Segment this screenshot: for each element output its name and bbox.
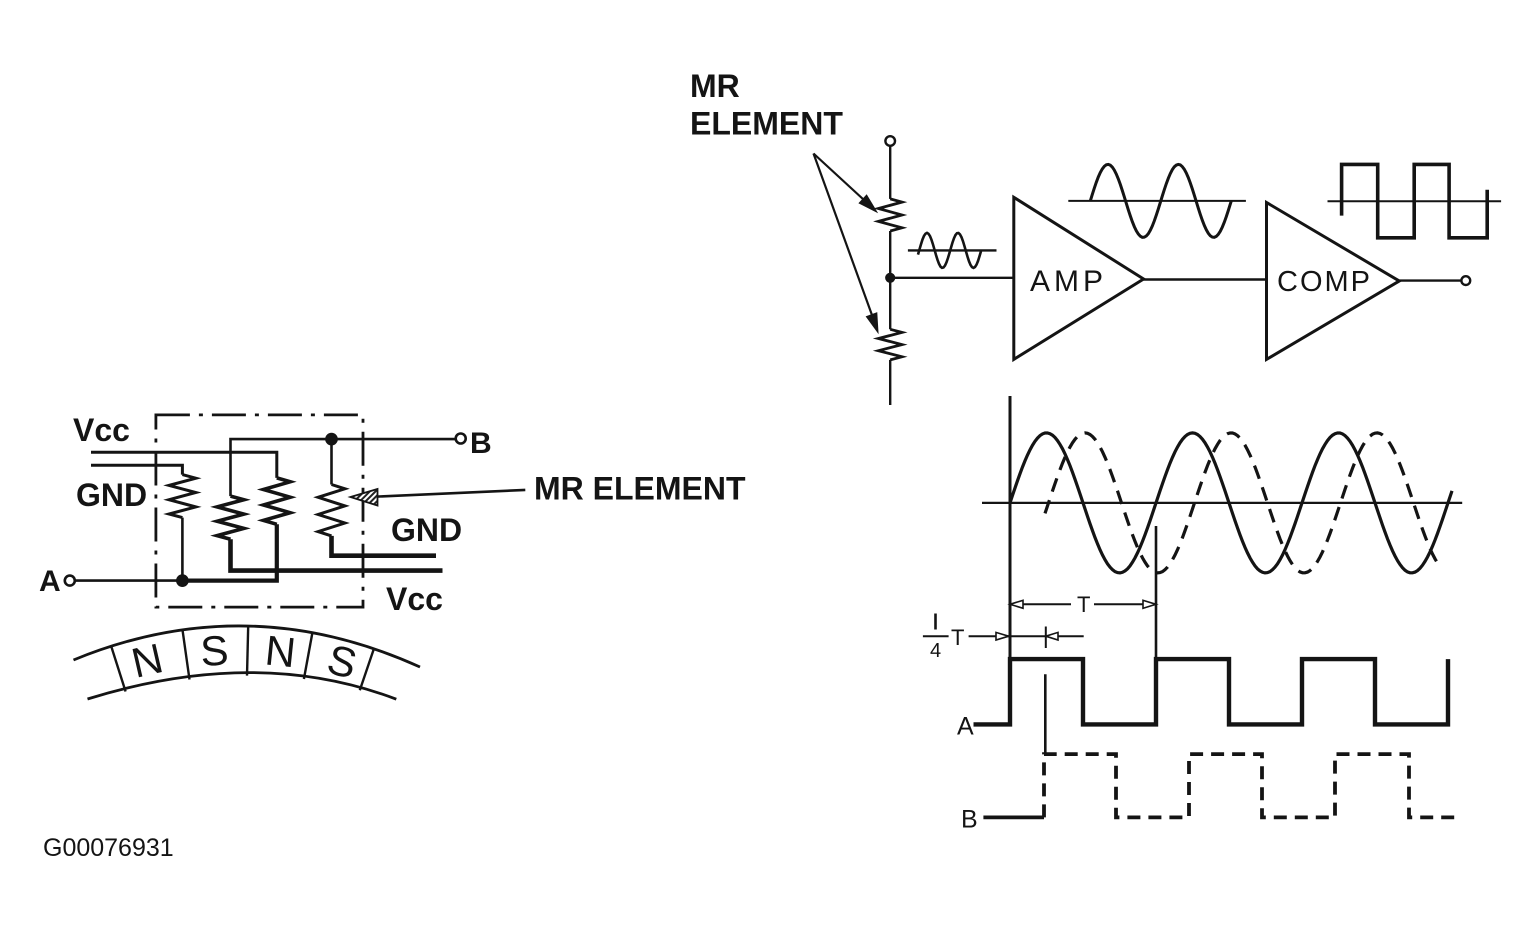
dimension T line	[1010, 603, 1071, 605]
waveform A square (solid)	[974, 659, 1449, 724]
wire Vcc left to R3 top	[91, 452, 277, 478]
svg-text:GND: GND	[391, 512, 462, 548]
wire node to R6	[889, 278, 891, 330]
dimension quarter T line	[969, 635, 1084, 637]
wire bias to R5	[889, 146, 891, 199]
svg-text:Vcc: Vcc	[73, 412, 130, 448]
signal square output wave	[1342, 164, 1488, 237]
svg-text:A: A	[957, 713, 974, 741]
svg-text:T: T	[951, 625, 964, 650]
terminal B	[456, 434, 466, 444]
op-amp U1 AMP	[1014, 197, 1144, 359]
junction node divider mid	[886, 273, 895, 282]
junction node A	[177, 575, 188, 586]
waveform B square (dashed)	[1044, 754, 1457, 817]
resistor R1 (left MR element)	[169, 475, 196, 518]
wire AMP output to COMP	[1144, 278, 1267, 280]
signal amplified sine wave	[1090, 164, 1231, 237]
callout arrow to resistor R5	[814, 154, 871, 206]
svg-text:COMP: COMP	[1277, 266, 1372, 298]
resistor R4	[318, 485, 345, 536]
signal sine phase B (dashed)	[1045, 433, 1441, 573]
wire R5 to node	[889, 231, 891, 278]
wire Vcc right bottom (R2 bottom lead)	[231, 539, 443, 570]
signal amplified sine axis	[1068, 200, 1246, 202]
signal square output axis	[1328, 200, 1502, 202]
svg-text:S: S	[199, 626, 230, 675]
MR element package outline (dash-dot box)	[156, 415, 363, 607]
svg-text:AMP: AMP	[1030, 265, 1107, 298]
signal small sine axis	[908, 249, 997, 251]
axis horizontal sine	[982, 502, 1462, 504]
callout arrow to resistor R6	[814, 154, 875, 323]
wire R1 bottom lead	[181, 518, 184, 581]
signal small sine wave	[918, 233, 981, 268]
quarter T arrowheads	[996, 632, 1009, 640]
magnet divider 3	[247, 626, 248, 676]
wire COMP output	[1399, 279, 1461, 281]
resistor R6 (MR element)	[878, 329, 902, 360]
wire GND left to R1 top	[91, 465, 182, 474]
svg-text:N: N	[263, 626, 298, 676]
svg-text:MR ELEMENT: MR ELEMENT	[534, 470, 746, 506]
wire node B top (R2 top to terminal B)	[231, 439, 456, 496]
terminal A	[65, 576, 75, 586]
svg-text:MR: MR	[690, 68, 740, 104]
svg-text:ELEMENT: ELEMENT	[690, 106, 843, 142]
junction node B	[326, 434, 337, 445]
magnet divider 2	[183, 630, 190, 680]
resistor R5 (MR element)	[878, 199, 902, 231]
magnet divider 4	[304, 633, 313, 679]
magnet divider 5	[360, 649, 374, 691]
resistor R2	[217, 496, 244, 539]
dimension T arrowheads	[1010, 600, 1023, 608]
svg-text:4: 4	[930, 640, 941, 662]
reference line B rise	[1044, 674, 1047, 754]
terminal bias top	[885, 136, 895, 146]
waveform B lead-in	[983, 816, 1044, 820]
svg-text:B: B	[961, 806, 978, 834]
axis vertical (phase origin)	[1009, 396, 1012, 724]
svg-text:GND: GND	[76, 477, 147, 513]
comparator U2 COMP	[1267, 203, 1400, 360]
terminal output	[1461, 276, 1470, 285]
wire terminal A to junction	[75, 579, 183, 582]
wire node to AMP input	[890, 277, 1014, 279]
wire R6 bottom	[889, 360, 891, 405]
signal sine phase A (solid)	[1010, 433, 1452, 573]
svg-text:G00076931: G00076931	[43, 834, 174, 862]
svg-text:A: A	[39, 565, 61, 598]
dimension quarter T fraction	[934, 614, 937, 630]
quarter T tick	[1045, 627, 1047, 649]
svg-text:B: B	[470, 427, 492, 460]
wire R4 top lead	[330, 439, 333, 484]
resistor R3	[263, 478, 290, 524]
magnet divider 1	[111, 646, 125, 691]
reference line T right	[1155, 526, 1158, 724]
wire GND right (R4 bottom)	[332, 536, 437, 556]
callout arrow MR ELEMENT (left schematic)	[375, 490, 525, 497]
svg-text:Vcc: Vcc	[386, 581, 443, 617]
magnet ring inner arc	[88, 673, 397, 700]
wire node A (R3 bottom to terminal A)	[186, 524, 277, 580]
svg-text:T: T	[1077, 592, 1090, 617]
magnet ring outer arc	[74, 626, 421, 667]
